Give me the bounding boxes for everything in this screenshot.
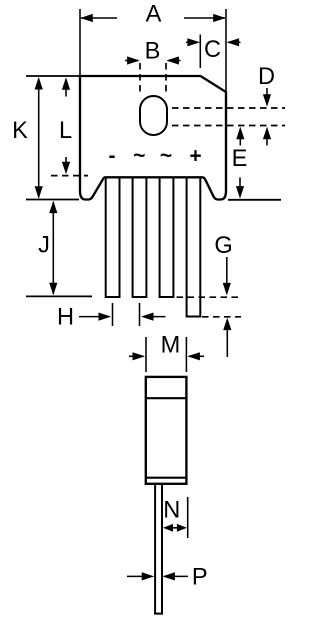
svg-text:G: G bbox=[214, 233, 232, 259]
svg-text:-: - bbox=[109, 145, 116, 168]
svg-text:A: A bbox=[146, 2, 162, 28]
svg-text:D: D bbox=[258, 64, 275, 90]
svg-text:~: ~ bbox=[160, 145, 172, 168]
svg-text:J: J bbox=[38, 232, 50, 258]
svg-text:E: E bbox=[232, 146, 248, 172]
svg-text:K: K bbox=[12, 118, 28, 144]
svg-text:C: C bbox=[204, 37, 221, 63]
svg-text:H: H bbox=[57, 305, 74, 331]
svg-text:P: P bbox=[192, 564, 208, 590]
svg-text:B: B bbox=[145, 39, 161, 65]
svg-text:+: + bbox=[189, 145, 201, 168]
svg-text:M: M bbox=[161, 332, 181, 358]
svg-text:~: ~ bbox=[133, 145, 145, 168]
svg-text:L: L bbox=[59, 118, 72, 144]
svg-text:N: N bbox=[163, 497, 180, 523]
